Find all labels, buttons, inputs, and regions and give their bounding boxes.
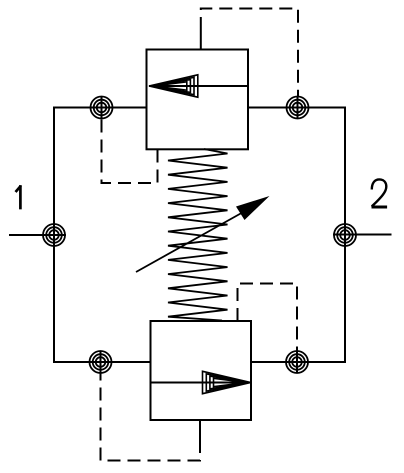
junction node port 1 bbox=[43, 224, 65, 246]
valve V2 body (bottom box) bbox=[151, 321, 252, 420]
junction node port 2 bbox=[334, 224, 356, 246]
valve V1 seat line bbox=[149, 85, 248, 87]
wire top-left segment bbox=[54, 107, 147, 109]
pilot line top (dashed) bbox=[201, 9, 298, 97]
wire bottom-left segment bbox=[54, 361, 151, 363]
valve V2 pilot stub (solid) bbox=[199, 420, 201, 440]
wire top-right segment bbox=[248, 107, 345, 109]
pilot line upper-left (dashed) bbox=[102, 119, 158, 183]
adjustment arrow shaft bbox=[136, 211, 246, 273]
junction node bottom-left bbox=[90, 351, 112, 373]
wire port 1 stub bbox=[9, 234, 66, 236]
junction node top-right bbox=[287, 96, 309, 119]
junction node top-left bbox=[91, 96, 113, 119]
wire port 2 stub bbox=[333, 234, 392, 236]
wire bottom-right segment bbox=[251, 361, 345, 363]
wire left vertical bbox=[53, 107, 55, 364]
pilot line lower-right (dashed) bbox=[238, 284, 298, 352]
junction node bottom-right bbox=[286, 351, 308, 373]
valve V2 seat line bbox=[151, 382, 251, 384]
port 1 label bbox=[16, 187, 20, 209]
adjustment arrow head bbox=[236, 196, 270, 220]
valve V2 poppet arrow (right pointing, nested) bbox=[203, 371, 251, 393]
pilot line bottom (dashed) bbox=[101, 373, 201, 461]
valve V1 poppet arrow (left pointing, nested) bbox=[149, 75, 198, 97]
wire right vertical bbox=[344, 107, 346, 364]
spring bbox=[168, 149, 228, 321]
valve V1 body (top box) bbox=[147, 50, 249, 150]
port 2 label bbox=[372, 179, 388, 207]
valve V1 pilot stub (solid) bbox=[200, 30, 202, 50]
